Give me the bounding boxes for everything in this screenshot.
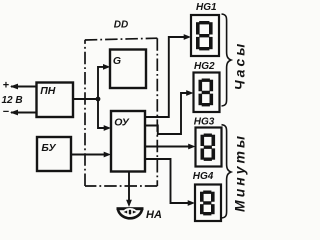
- svg-text:Часы: Часы: [232, 41, 248, 90]
- svg-text:DD: DD: [114, 20, 128, 31]
- svg-text:ПН: ПН: [40, 85, 56, 97]
- svg-text:Минуты: Минуты: [232, 133, 248, 212]
- svg-text:12 В: 12 В: [1, 95, 22, 106]
- svg-text:ОУ: ОУ: [114, 117, 130, 129]
- svg-text:НА: НА: [146, 209, 162, 221]
- svg-text:БУ: БУ: [41, 142, 56, 154]
- svg-text:HG1: HG1: [196, 2, 217, 13]
- svg-text:HG3: HG3: [194, 117, 215, 128]
- svg-text:+: +: [3, 80, 9, 92]
- svg-text:HG4: HG4: [193, 171, 214, 182]
- svg-text:G: G: [113, 55, 121, 67]
- svg-text:HG2: HG2: [194, 61, 215, 72]
- svg-text:−: −: [3, 106, 9, 118]
